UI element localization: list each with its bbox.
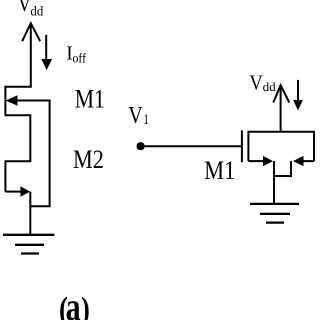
svg-text:V: V (128, 101, 143, 128)
svg-text:a: a (66, 284, 81, 320)
svg-text:M2: M2 (73, 145, 104, 174)
svg-text:V: V (18, 0, 31, 17)
svg-text:M1: M1 (75, 84, 105, 114)
svg-text:M1: M1 (204, 157, 235, 186)
svg-text:dd: dd (30, 3, 43, 19)
svg-text:V: V (249, 71, 263, 94)
svg-text:dd: dd (263, 80, 277, 94)
svg-text:off: off (73, 51, 87, 66)
svg-text:1: 1 (143, 111, 149, 127)
svg-text:): ) (81, 290, 90, 320)
